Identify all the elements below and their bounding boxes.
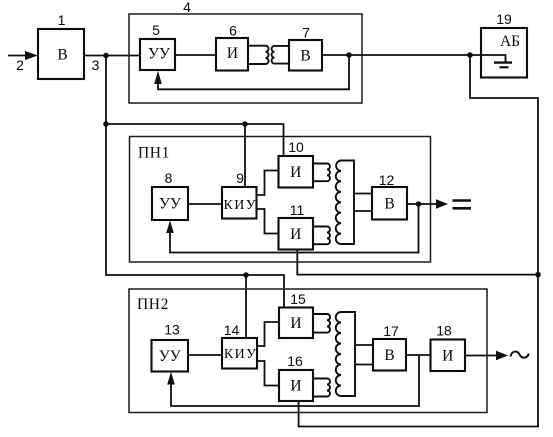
svg-text:И: И: [442, 348, 453, 365]
svg-text:В: В: [384, 347, 394, 364]
tab secondary to block12: [354, 194, 372, 212]
transformer T3 primary winding lower: [313, 379, 330, 397]
svg-text:6: 6: [229, 23, 237, 39]
svg-text:9: 9: [236, 170, 244, 186]
svg-text:14: 14: [224, 322, 240, 338]
transformer T2 secondary winding: [336, 161, 354, 245]
junction dot after block7: [346, 52, 352, 58]
svg-text:13: 13: [164, 322, 180, 338]
block 17 В: [373, 339, 406, 371]
svg-text:И: И: [290, 164, 301, 181]
block 19 АБ battery: [481, 28, 527, 78]
ground symbol inside АБ: [481, 55, 512, 67]
svg-text:И: И: [290, 315, 301, 332]
block 9 КИУ: [222, 187, 257, 219]
svg-text:В: В: [384, 196, 394, 213]
svg-text:12: 12: [379, 172, 395, 188]
box ПН2: [129, 289, 487, 413]
block 6 И: [216, 38, 248, 71]
block 10 И: [279, 156, 314, 188]
wire КИУ14 to block16: [257, 361, 279, 386]
feedback wire to block8: [166, 204, 418, 253]
svg-text:И: И: [290, 226, 301, 243]
wire to КИУ14 top: [245, 275, 247, 338]
wire block5 to block6: [175, 54, 216, 56]
DC symbol =: [453, 201, 472, 209]
svg-text:19: 19: [496, 11, 512, 27]
box ПН1: [130, 137, 431, 263]
transformer T3 secondary winding: [336, 312, 355, 396]
branch wire to block10 top: [106, 124, 284, 156]
svg-text:КИУ: КИУ: [224, 347, 258, 362]
output wire AC with arrow: [465, 351, 508, 360]
node3 rail down left: [106, 56, 284, 308]
AC symbol ~: [511, 352, 529, 358]
junction dot on right rail: [535, 272, 541, 278]
svg-text:АБ: АБ: [500, 33, 520, 50]
block 16 И: [279, 370, 313, 401]
svg-text:11: 11: [290, 202, 305, 218]
box 4: [129, 14, 362, 103]
svg-text:УУ: УУ: [148, 46, 170, 63]
block 5 УУ: [140, 39, 175, 70]
svg-text:И: И: [227, 45, 238, 62]
svg-text:КИУ: КИУ: [224, 198, 258, 213]
svg-text:16: 16: [287, 353, 303, 369]
wire to КИУ9 top: [244, 124, 246, 187]
svg-text:И: И: [290, 378, 301, 395]
block 18 И: [431, 340, 466, 372]
svg-text:17: 17: [383, 323, 399, 339]
transformer T1 primary winding: [248, 46, 269, 64]
output wire DC with arrow: [407, 199, 448, 208]
svg-text:8: 8: [165, 170, 173, 186]
wire block7 to block19: [322, 54, 481, 56]
block 13 УУ: [152, 340, 189, 372]
wire block8 to block9: [188, 203, 222, 205]
junction dot branch x245: [242, 121, 248, 127]
wire block13 to block14: [188, 354, 222, 356]
feedback wire to block13: [167, 355, 419, 406]
junction dot output12: [416, 201, 422, 207]
svg-text:ПН1: ПН1: [138, 145, 170, 162]
svg-text:3: 3: [92, 57, 100, 73]
block 1 В: [38, 29, 84, 79]
block 14 КИУ: [222, 338, 257, 369]
junction dot on y275: [243, 272, 249, 278]
svg-text:УУ: УУ: [159, 196, 181, 213]
wire КИУ9 to block11: [257, 209, 279, 234]
svg-text:2: 2: [16, 57, 24, 73]
svg-text:В: В: [300, 48, 310, 65]
svg-text:4: 4: [183, 0, 191, 15]
block 11 И: [279, 218, 314, 250]
tab secondary to block17: [355, 345, 373, 365]
junction dot rail y124: [103, 121, 109, 127]
wire block17 to block18: [406, 354, 431, 356]
block 12 В: [372, 187, 407, 220]
battery rail wire right side: [299, 55, 538, 427]
transformer T3 primary winding upper: [313, 314, 330, 333]
block 8 УУ: [152, 187, 188, 220]
feedback wire box4 to block5: [154, 55, 349, 89]
block 15 И: [279, 308, 313, 339]
transformer T2 primary winding upper: [313, 164, 330, 182]
svg-text:В: В: [57, 47, 67, 64]
node 3 junction dot: [103, 53, 109, 59]
svg-text:5: 5: [152, 22, 160, 38]
transformer T2 primary winding lower: [313, 227, 330, 245]
wire КИУ14 to block15: [257, 322, 279, 346]
svg-text:10: 10: [288, 139, 304, 155]
svg-text:УУ: УУ: [159, 348, 181, 365]
wire block11 to right rail: [297, 250, 538, 275]
svg-text:15: 15: [290, 291, 306, 307]
svg-text:1: 1: [58, 12, 66, 28]
svg-text:18: 18: [436, 323, 452, 339]
junction dot before АБ: [467, 52, 473, 58]
transformer T1 secondary winding: [272, 46, 289, 64]
input wire with arrow: [8, 51, 38, 60]
wire block1 to block5: [84, 55, 140, 57]
block 7 В: [289, 40, 322, 71]
svg-text:7: 7: [302, 25, 310, 41]
wire КИУ9 to block10: [257, 171, 279, 196]
svg-text:ПН2: ПН2: [137, 296, 169, 313]
